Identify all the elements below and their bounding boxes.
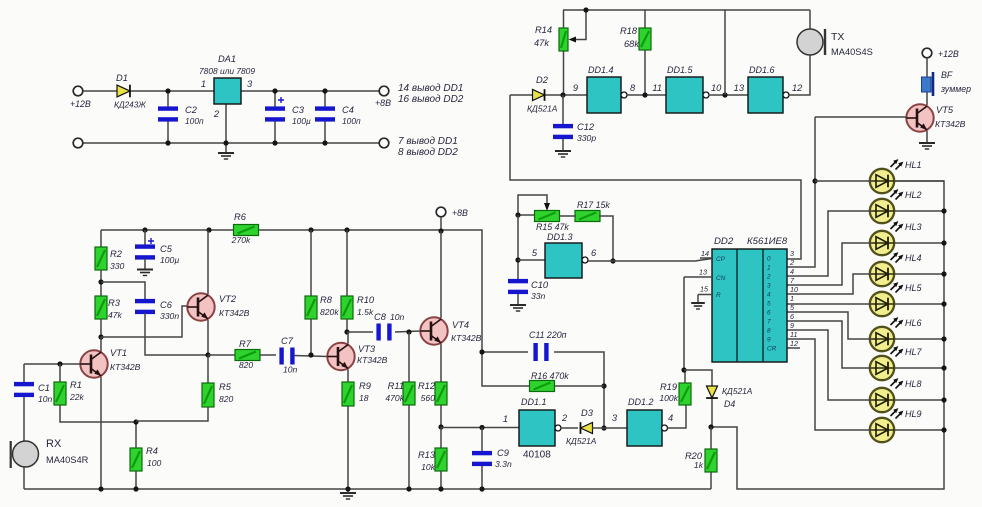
svg-text:5: 5 <box>532 248 538 258</box>
svg-text:R14: R14 <box>535 25 552 35</box>
svg-text:HL2: HL2 <box>905 190 922 200</box>
svg-text:9: 9 <box>790 321 794 330</box>
svg-text:9: 9 <box>767 337 771 344</box>
svg-text:1: 1 <box>767 265 771 272</box>
svg-text:100k: 100k <box>659 393 678 403</box>
svg-text:8: 8 <box>630 83 636 93</box>
svg-text:КТ342В: КТ342В <box>451 333 482 343</box>
svg-text:12: 12 <box>792 83 803 93</box>
svg-text:DD1.6: DD1.6 <box>749 65 775 75</box>
svg-text:DD1.2: DD1.2 <box>628 397 654 407</box>
svg-text:R13: R13 <box>418 450 436 460</box>
svg-text:C2: C2 <box>185 105 198 115</box>
svg-text:13: 13 <box>734 83 745 93</box>
svg-text:КД521А: КД521А <box>566 436 597 446</box>
svg-text:6: 6 <box>767 310 771 317</box>
svg-text:C11 220п: C11 220п <box>529 330 567 340</box>
svg-text:2: 2 <box>766 274 771 281</box>
svg-text:10n: 10n <box>390 312 405 322</box>
svg-text:C6: C6 <box>160 300 173 310</box>
svg-text:R18: R18 <box>620 26 638 36</box>
svg-text:330p: 330p <box>577 133 596 143</box>
svg-text:HL3: HL3 <box>905 222 922 232</box>
svg-text:КД521А: КД521А <box>722 386 753 396</box>
svg-text:7808 или 7809: 7808 или 7809 <box>199 66 255 76</box>
svg-text:14 вывод DD1: 14 вывод DD1 <box>398 83 463 94</box>
svg-text:3.3n: 3.3n <box>495 459 512 469</box>
svg-text:VT2: VT2 <box>219 294 237 304</box>
svg-text:6: 6 <box>790 312 794 321</box>
svg-text:R: R <box>716 292 721 299</box>
svg-text:VT3: VT3 <box>358 344 376 354</box>
svg-text:DD1.1: DD1.1 <box>521 397 547 407</box>
svg-text:C8: C8 <box>374 312 387 322</box>
svg-text:3: 3 <box>790 249 794 258</box>
svg-text:HL1: HL1 <box>905 160 922 170</box>
svg-text:R2: R2 <box>110 249 123 259</box>
svg-text:0: 0 <box>767 256 771 263</box>
svg-text:VT1: VT1 <box>110 348 127 358</box>
svg-text:КТ342В: КТ342В <box>219 308 250 318</box>
svg-text:КД243Ж: КД243Ж <box>114 101 146 110</box>
svg-text:R16 470k: R16 470k <box>531 371 569 381</box>
svg-text:1: 1 <box>503 414 508 424</box>
svg-text:R7: R7 <box>239 339 252 349</box>
svg-text:10k: 10k <box>421 462 436 472</box>
svg-text:10n: 10n <box>283 365 298 375</box>
svg-text:HL7: HL7 <box>905 347 923 357</box>
svg-text:100п: 100п <box>342 116 361 126</box>
svg-text:47k: 47k <box>108 310 123 320</box>
svg-text:C3: C3 <box>292 105 305 115</box>
svg-text:40108: 40108 <box>523 450 551 461</box>
svg-text:6: 6 <box>591 248 597 258</box>
svg-text:18: 18 <box>359 393 369 403</box>
svg-text:R19: R19 <box>660 382 677 392</box>
svg-text:3: 3 <box>247 79 253 89</box>
svg-text:820: 820 <box>239 360 254 370</box>
svg-text:DD1.4: DD1.4 <box>588 65 614 75</box>
svg-text:100µ: 100µ <box>292 116 311 126</box>
svg-text:R15 47k: R15 47k <box>536 222 569 232</box>
svg-text:зуммер: зуммер <box>940 84 971 94</box>
svg-text:R11: R11 <box>388 381 404 391</box>
svg-text:BF: BF <box>941 70 953 80</box>
svg-text:2: 2 <box>789 258 794 267</box>
svg-text:CR: CR <box>767 346 777 353</box>
svg-text:13: 13 <box>699 268 707 277</box>
svg-text:4: 4 <box>767 292 771 299</box>
svg-text:100п: 100п <box>185 116 204 126</box>
svg-text:10n: 10n <box>38 394 53 404</box>
svg-text:R5: R5 <box>219 382 232 392</box>
svg-text:R1: R1 <box>70 380 82 390</box>
svg-text:3: 3 <box>612 413 618 423</box>
svg-text:VT4: VT4 <box>452 320 469 330</box>
svg-text:47k: 47k <box>534 38 550 48</box>
svg-text:DD1.3: DD1.3 <box>547 232 573 242</box>
svg-text:+12В: +12В <box>70 99 91 109</box>
svg-text:10: 10 <box>711 83 722 93</box>
svg-text:TX: TX <box>831 31 844 43</box>
svg-text:R9: R9 <box>359 381 371 391</box>
svg-text:RX: RX <box>46 438 62 450</box>
svg-text:C10: C10 <box>531 280 549 290</box>
svg-text:КТ342В: КТ342В <box>935 119 966 129</box>
svg-text:270k: 270k <box>231 235 251 245</box>
svg-text:8: 8 <box>767 328 771 335</box>
svg-text:КД521А: КД521А <box>527 104 558 114</box>
svg-text:2: 2 <box>213 109 220 119</box>
svg-text:470k: 470k <box>385 393 404 403</box>
svg-text:СР: СР <box>716 256 726 263</box>
svg-text:R8: R8 <box>320 295 333 305</box>
svg-text:68k: 68k <box>624 39 640 49</box>
svg-text:C7: C7 <box>281 336 294 346</box>
svg-text:CN: CN <box>716 275 726 282</box>
svg-text:1.5k: 1.5k <box>357 307 374 317</box>
svg-text:8 вывод DD2: 8 вывод DD2 <box>398 147 458 158</box>
svg-text:10: 10 <box>790 285 798 294</box>
svg-text:7: 7 <box>767 319 771 326</box>
svg-text:C12: C12 <box>577 122 595 132</box>
svg-text:DA1: DA1 <box>218 54 236 64</box>
svg-text:R17 15k: R17 15k <box>577 200 610 210</box>
svg-text:100: 100 <box>147 458 162 468</box>
svg-text:D1: D1 <box>116 73 128 83</box>
svg-text:R4: R4 <box>146 446 158 456</box>
svg-text:330: 330 <box>110 261 125 271</box>
svg-text:+8В: +8В <box>452 208 468 218</box>
svg-text:7 вывод DD1: 7 вывод DD1 <box>398 136 458 147</box>
svg-text:16 вывод DD2: 16 вывод DD2 <box>398 94 464 105</box>
svg-text:1: 1 <box>201 79 206 89</box>
svg-text:R6: R6 <box>234 212 247 222</box>
svg-text:VT5: VT5 <box>936 105 954 115</box>
svg-text:12: 12 <box>790 339 798 348</box>
svg-text:4: 4 <box>668 413 673 423</box>
svg-text:HL6: HL6 <box>905 318 922 328</box>
svg-text:11: 11 <box>790 330 797 339</box>
svg-text:33n: 33n <box>531 291 546 301</box>
svg-text:330n: 330n <box>160 311 179 321</box>
svg-text:+12В: +12В <box>938 49 959 59</box>
svg-text:14: 14 <box>701 249 709 258</box>
svg-text:5: 5 <box>767 301 771 308</box>
svg-text:КТ342В: КТ342В <box>357 355 388 365</box>
svg-text:100µ: 100µ <box>160 255 179 265</box>
svg-text:R10: R10 <box>357 295 375 305</box>
svg-text:C4: C4 <box>342 105 354 115</box>
svg-text:+8В: +8В <box>375 98 391 108</box>
svg-text:HL9: HL9 <box>905 409 922 419</box>
svg-text:R3: R3 <box>108 298 121 308</box>
svg-text:2: 2 <box>561 413 568 423</box>
svg-text:MA40S4R: MA40S4R <box>46 455 89 465</box>
svg-text:DD1.5: DD1.5 <box>667 65 694 75</box>
svg-text:1: 1 <box>790 294 794 303</box>
svg-text:HL8: HL8 <box>905 379 922 389</box>
svg-text:22k: 22k <box>69 392 85 402</box>
svg-text:HL4: HL4 <box>905 253 922 263</box>
svg-text:HL5: HL5 <box>905 283 923 293</box>
svg-text:11: 11 <box>652 83 662 93</box>
svg-text:К561ИЕ8: К561ИЕ8 <box>747 236 788 247</box>
svg-text:D2: D2 <box>536 75 549 85</box>
svg-text:MA40S4S: MA40S4S <box>831 47 873 57</box>
svg-text:C1: C1 <box>38 383 50 393</box>
svg-text:КТ342В: КТ342В <box>110 362 141 372</box>
svg-text:9: 9 <box>573 83 578 93</box>
svg-text:D3: D3 <box>581 408 594 418</box>
svg-text:15: 15 <box>700 285 709 294</box>
svg-text:560: 560 <box>421 393 436 403</box>
svg-text:1k: 1k <box>694 460 704 470</box>
svg-text:3: 3 <box>767 283 771 290</box>
svg-text:820: 820 <box>219 394 234 404</box>
svg-text:C5: C5 <box>160 244 173 254</box>
svg-text:D4: D4 <box>724 399 735 409</box>
svg-text:820k: 820k <box>320 307 339 317</box>
svg-text:C9: C9 <box>497 448 509 458</box>
svg-text:4: 4 <box>790 267 794 276</box>
svg-text:DD2: DD2 <box>714 236 734 247</box>
svg-text:R12: R12 <box>418 381 436 391</box>
